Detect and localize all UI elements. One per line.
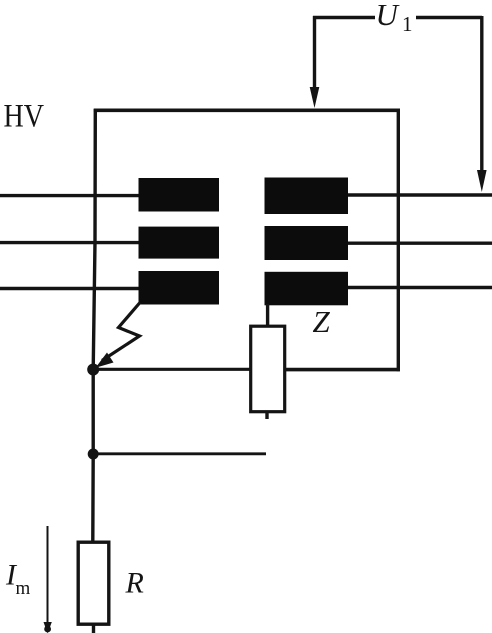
svg-text:1: 1 [402, 12, 413, 36]
svg-text:R: R [125, 567, 144, 600]
box: regulator top edge [94, 109, 400, 113]
wire: U1 bracket top-left segment [313, 16, 375, 19]
tap zigzag arrow [102, 303, 140, 361]
node A (tap node) [87, 364, 99, 376]
wire: main vertical line (box left edge down to R) [93, 109, 96, 541]
phase line B right [347, 241, 492, 244]
wire: node B to right [93, 452, 266, 455]
wire: Z to box right edge [285, 368, 400, 372]
wire: bar 3 to Z top [266, 304, 269, 327]
impedance Z [251, 326, 285, 412]
winding bar 1 (left bank) [139, 178, 220, 212]
winding bar 2 (right bank) [265, 226, 349, 260]
arrowhead onto phase line A [477, 170, 487, 192]
resistor R [78, 542, 109, 624]
Im arrowhead [44, 622, 52, 633]
Im arrow line [47, 526, 49, 624]
Z bottom stub [265, 412, 268, 419]
svg-text:U: U [376, 0, 401, 32]
wire: U1 bracket top-right segment [416, 16, 482, 19]
phase line A left [0, 194, 140, 197]
phase line C right [347, 286, 492, 289]
svg-text:Z: Z [313, 304, 331, 339]
winding bar 2 (left bank) [139, 227, 220, 259]
node B [88, 449, 99, 460]
winding bar 1 (right bank) [265, 178, 349, 215]
wire: U1 right branch down to phase line A [480, 16, 483, 172]
winding bar 3 (left bank) [139, 271, 220, 305]
phase line B left [0, 241, 140, 244]
arrowhead into box top [310, 87, 320, 108]
R bottom stub [92, 624, 95, 633]
box: right edge [397, 109, 400, 371]
phase line A right [347, 193, 492, 196]
winding bar 3 (right bank) [265, 272, 349, 306]
svg-text:HV: HV [4, 99, 45, 135]
svg-text:m: m [16, 578, 31, 599]
tap arrowhead [96, 353, 114, 368]
wire: U1 left branch down to box [313, 16, 316, 89]
wire: node A to Z [93, 368, 251, 371]
phase line C left [0, 287, 140, 290]
